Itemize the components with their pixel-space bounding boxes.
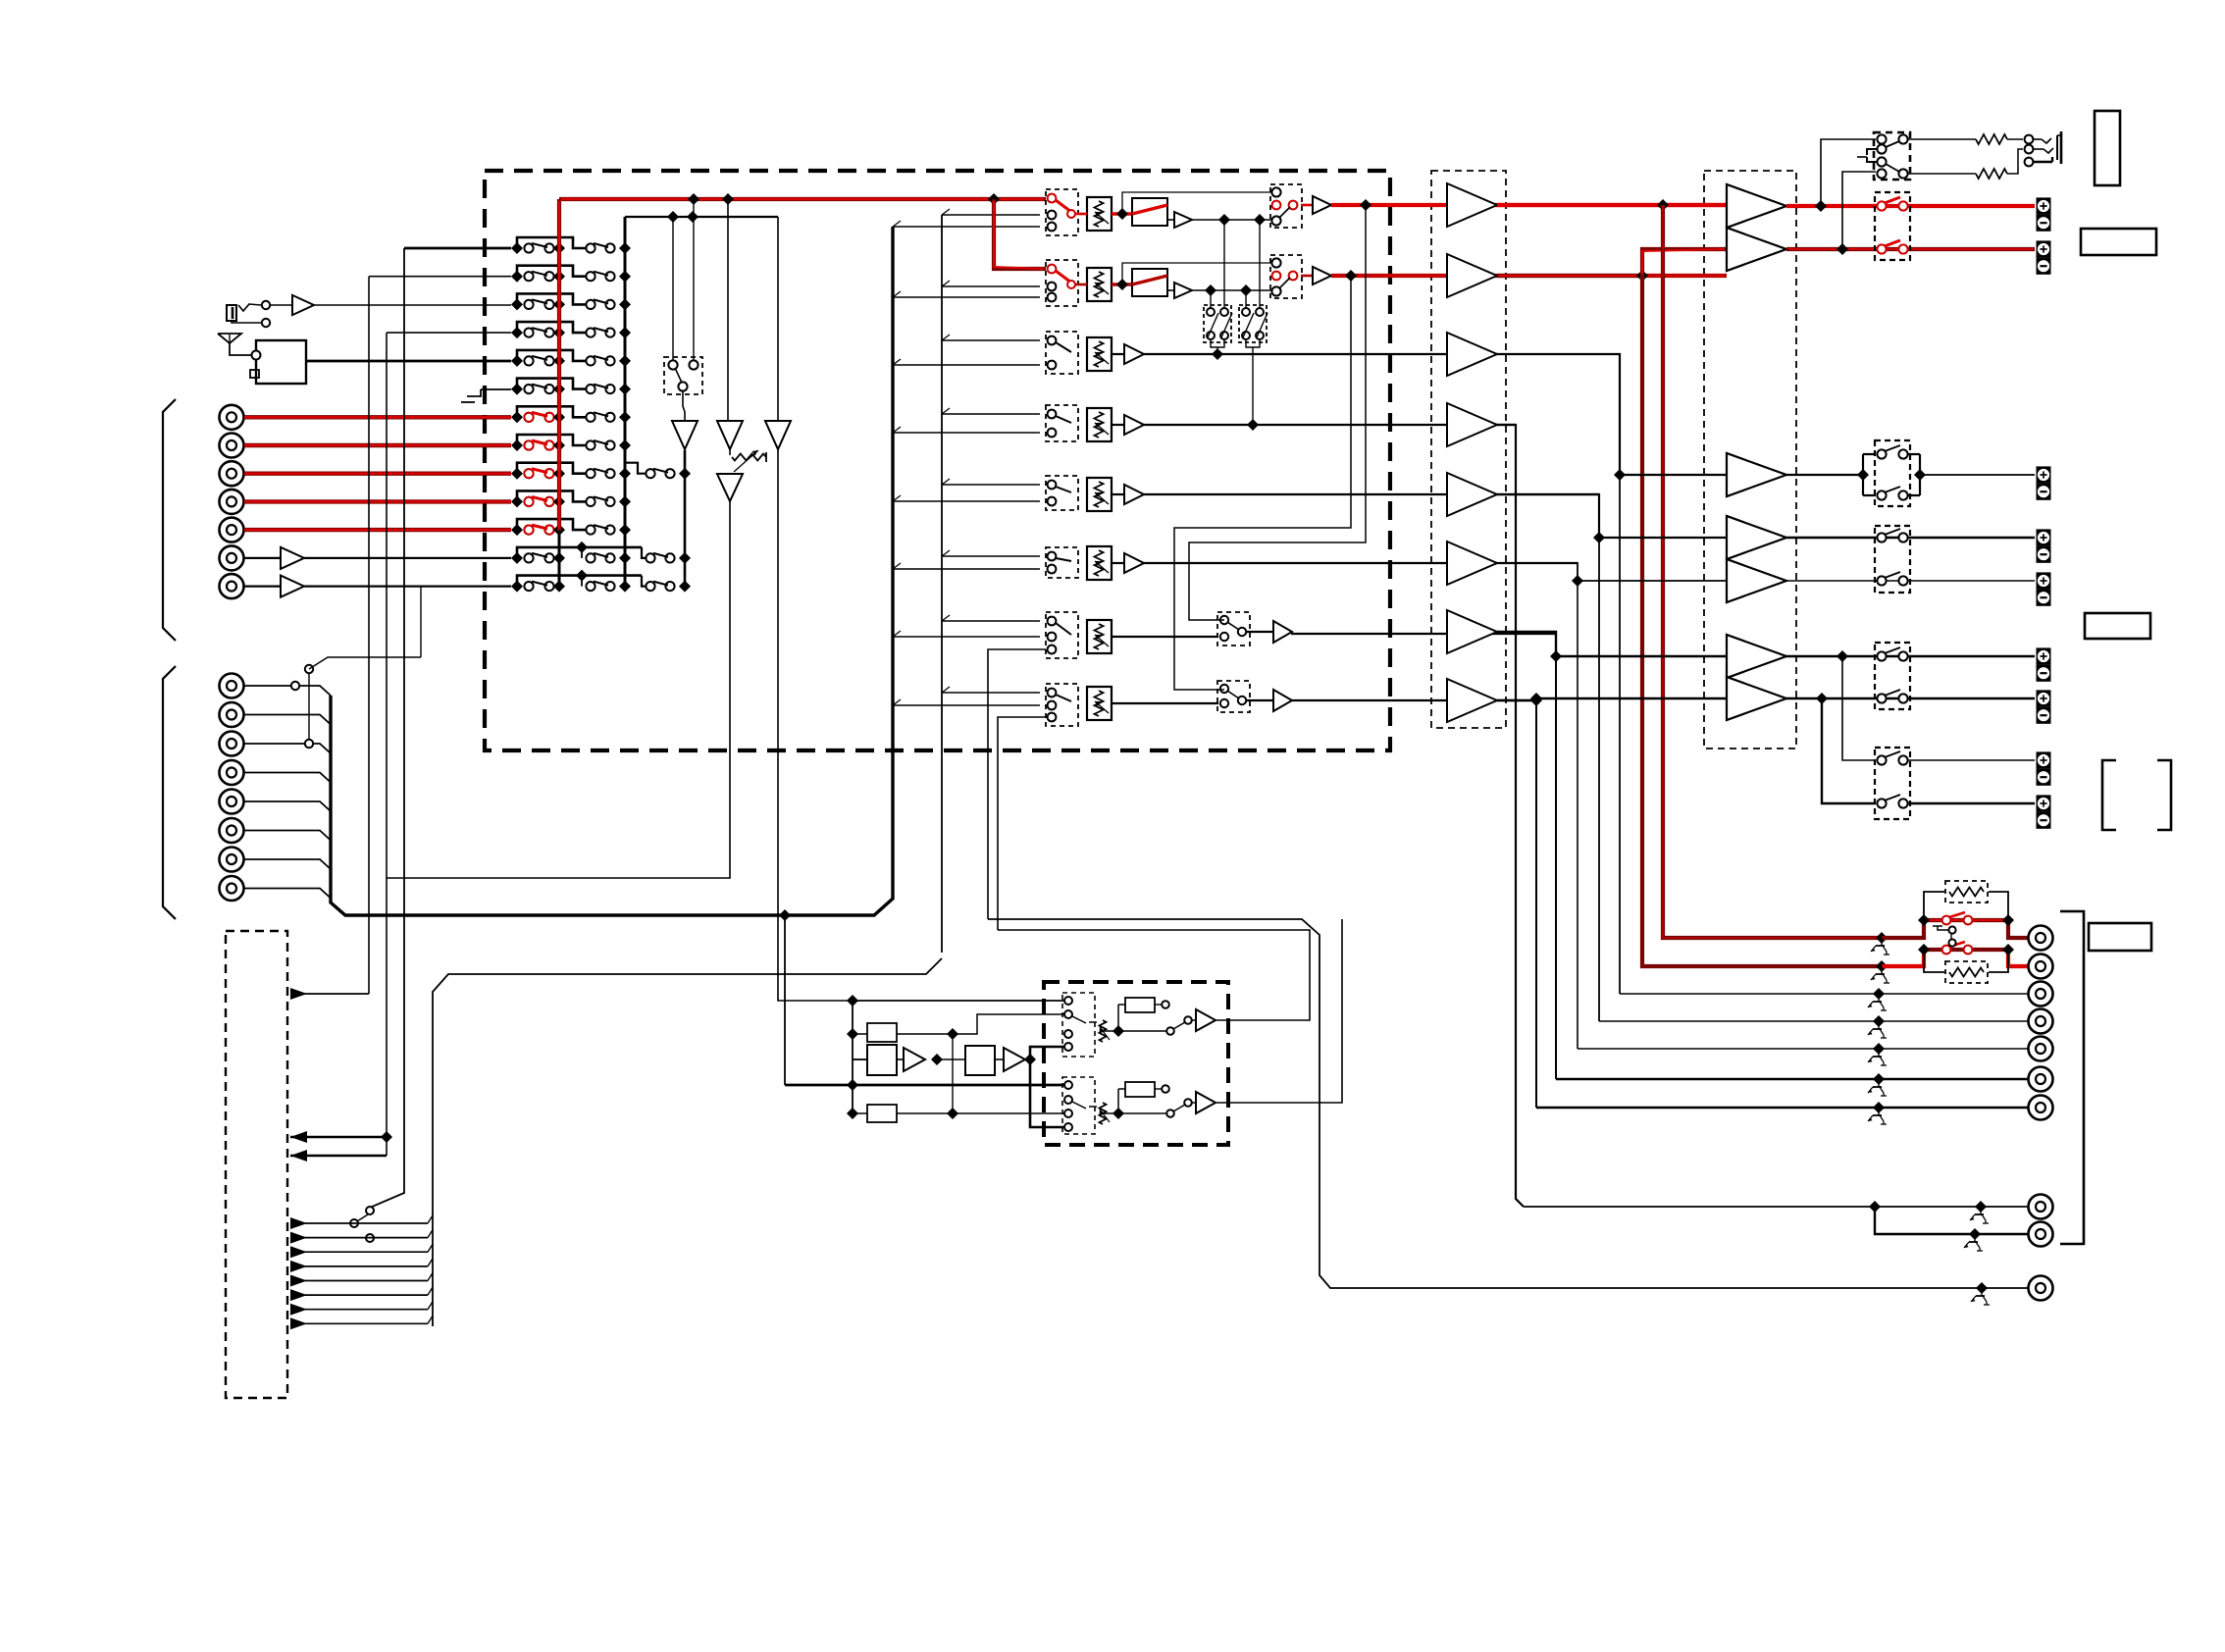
pre out group bracket [2060,911,2084,1244]
C zone line (long horizontal) [988,919,2028,1294]
rec tap buffer A-FLt [1167,212,1192,228]
red selected-signal drop to front-R volume [988,193,1046,269]
buffer A-DF1 [897,1048,943,1071]
mute transistor Q-CZ [1971,1288,1990,1305]
DSP output bus riser [433,958,942,1326]
wire MC5 to input bus [244,801,331,811]
line buffer A-SR [1112,553,1144,573]
DAC out line B [1216,919,1342,1103]
SW pre-out jack J-SW1 [2029,1195,2053,1219]
speaker config bracket [2102,760,2171,830]
SW pre-out line 2 [1875,1207,2028,1240]
selector switch S10b (record) row10 [586,495,631,507]
selector switch S3b (record) row3 [586,298,631,310]
input select switch SW-FL (dashed box) [1046,189,1078,235]
wire MC3 to input bus [244,744,331,753]
volume control VR-SBR [1087,687,1112,720]
label box FRONT [2081,229,2156,255]
pre-out jack J-SL [2029,1009,2053,1034]
input select switch SW-SW (dashed box) [1046,405,1078,441]
mute transistor Q-SW2 [1964,1234,1983,1251]
SBR pre-out drop [1535,698,1537,1108]
RCA multi-channel input jack MC8 [220,876,244,901]
selector switch S13a (listen) row13 [511,581,565,593]
SL speaker line [1786,537,2035,540]
bypass bracket row9 to aux record column [625,463,646,474]
wire C strip to driver [1144,348,1497,360]
input select switch SW-SBL (dashed box) [1046,612,1078,658]
headphone dropping resistor RL [1907,134,2023,144]
selector switch S13c (aux record) row13 [646,581,691,593]
clock block X2 [853,1105,1068,1122]
muting relay RY-FL [1132,198,1167,226]
label box PRE OUT [2089,923,2151,951]
DAC output switch B [1118,1099,1192,1117]
rec level pot [730,449,766,472]
line buffer A-SW [1112,415,1144,435]
FR speaker terminal pair [2037,240,2051,274]
DSP block (dashed box, bottom-left) [226,931,287,1398]
mic/phones input jack J-MIC [227,301,270,327]
wire SL strip to driver [1144,493,1599,495]
mute transistor Q-SL [1868,1021,1887,1038]
rec out L buffer A-REC3 (down) [717,474,743,501]
pre-out jack J-FR [2029,955,2053,979]
driver amp A-DFL [1447,183,1497,227]
RCA multi-channel input jack MC5 [220,790,244,814]
wire rec out R down to DAC monitor [778,449,1068,1007]
mute transistor Q-SBL [1868,1079,1887,1096]
wire A-REC1 out to aux record bus [684,449,686,474]
C speaker line with A/B bridge [1786,454,2035,495]
rec tap buffer A-FRt [1167,283,1192,298]
multi-channel input bus (vertical, thick) [331,227,893,915]
pre-out line SBR with mute [1536,1102,2028,1113]
red FR riser and feed to power amp [1642,249,1727,276]
wire FL to driver amp (red) [1331,203,1727,207]
red FR speaker line [1786,243,2035,255]
zone L line [1907,759,2035,761]
selector switch S11a (listen) row11 [511,524,565,536]
buffer A-DF2 [995,1048,1036,1071]
wire selector row1 (thick) down to DSP bypass [370,248,511,1208]
power amp A-PC [1727,453,1786,496]
volume control VR-SW [1087,408,1112,441]
pre-out relay actuator [1933,926,1956,947]
selector switch S5b (record) row5 [586,355,631,367]
front-L tap to SBL tone switch [1189,199,1371,620]
long bypass bracket row13 to aux record column [576,570,646,587]
SBR speaker line [1786,693,2035,704]
mute transistor Q-SR [1868,1049,1887,1065]
mute transistor Q-C [1868,994,1887,1010]
selector switch S11b (record) row11 [586,524,631,536]
headphone feed R [1842,172,1876,249]
zone L terminal pair [2037,751,2051,785]
RCA multi-channel input jack MC3 [220,732,244,756]
input select switch SW-SBR (dashed box) [1046,684,1078,726]
rec tap line FL [1192,214,1271,226]
SW pre-out jack J-SW2 [2029,1222,2053,1247]
input select switch SW-SL (dashed box) [1046,476,1078,510]
zone B feed L [1842,656,1876,760]
mute transistor Q-SW1 [1970,1207,1989,1223]
red signal wire jack IN4 to selector [244,499,511,503]
rec tap verticals FR [1211,290,1246,312]
selector switch S10a (listen) row10 [511,495,565,507]
headphone dropping resistor RR [1907,149,2023,179]
SW pre-out line 1 [1524,1201,2028,1213]
DSP channel arrow 3 [290,1244,433,1258]
RCA multi-channel input jack MC7 [220,848,244,872]
record bus feed line (horizontal) [625,211,778,223]
speaker relay switch SW-FRONT (dashed box) [1875,192,1910,260]
bypass bracket row2 to record column [517,266,586,277]
line buffer A-FL [1301,196,1331,214]
bypass bracket row5 to record column [517,350,586,361]
red selected-signal line to front-L volume [559,197,1046,201]
selector switch S5a (listen) row5 [511,355,565,367]
SBL pre-out drop [1555,656,1557,1079]
SL line to power amp [1497,494,1727,543]
wire SR strip to driver [1144,562,1578,564]
speaker switch SW-ZONE (dashed box) [1875,748,1910,819]
DAC input bus vertical [847,1001,858,1119]
DSP channel arrow 7 [290,1302,433,1316]
red FL line driver to power amp [1497,199,1727,211]
DAC deemphasis resistor A [1118,998,1169,1031]
DSP channel arrow 1 [290,1215,433,1229]
power amplifier block (dashed) [1704,171,1796,749]
RCA input jack IN1 (selected, red) [220,405,244,430]
red signal wire jack IN1 to selector [244,415,511,419]
selector switch S4b (record) row4 [586,327,631,338]
SBL speaker terminal pair [2037,647,2051,681]
selector switch S7a (listen) row7 [511,411,565,423]
selector switch S3a (listen) row3 [511,298,565,310]
selector switch S9c (aux record) row9 [646,468,691,480]
SR line to power amp [1497,563,1727,587]
FR pre-out bypass resistor (dashed box) [1945,961,1988,983]
rec tap line FR [1192,284,1271,296]
speaker switch SW-SURR (dashed box) [1875,526,1910,593]
power amp A-PSL [1727,516,1786,559]
selector switch S4a (listen) row4 [511,327,565,338]
RCA input jack IN4 (selected, red) [220,490,244,514]
DAC thick input line 2 [785,1084,1068,1087]
RCA input jack INB2 [220,574,244,598]
tape monitor switch on MC lines [291,657,421,748]
bypass bracket row11 to record column [517,519,586,530]
wire MC7 to input bus [244,859,331,869]
wire tape monitor to selector row13 [420,587,422,657]
headphone switch SW-HP (dashed box) [1857,132,1910,180]
rec out selector SW-ROFL (dashed box) [1270,184,1302,228]
volume control VR-C [1087,337,1112,371]
FL pre-out attenuator network (red) [1876,892,2028,944]
wire MC4 to input bus [244,773,331,783]
direct bypass wire FR [1122,263,1272,284]
selector switch S12c (aux record) row12 [646,552,691,564]
red FR pre-out drop [1642,276,1882,966]
DAC output buffer B [1192,1092,1216,1113]
RCA input jack INB1 [220,545,244,570]
DSP return arrow 1 [290,1131,392,1143]
RCA multi-channel input jack MC2 [220,702,244,727]
red signal wire jack IN5 to selector [244,528,511,532]
record source selector SW-REC (dashed box) [664,357,702,394]
junction on red line for record tap [688,193,734,205]
ext-in feed to SBR strip [998,717,1046,930]
wire selector row4 down to DSP returns [387,333,511,1156]
SBR speaker terminal pair [2037,690,2051,723]
selector switch S12b (record) row12 [586,552,631,564]
DAC deemphasis resistor B [1118,1082,1169,1113]
driver amp A-DSW [1447,403,1497,446]
pre-out line SBL with mute [1556,1073,2028,1085]
SR pre-out drop [1577,581,1578,1049]
rec out routing switch box 1 (dashed) [1204,305,1232,342]
zone pre-out jack J-CZ [2029,1276,2053,1301]
FL speaker terminal pair [2037,197,2051,231]
mute transistor Q-FR [1871,966,1889,983]
selector switch S13b (record) row13 [586,581,631,593]
wire mic to selector row3 [270,304,511,306]
SL speaker terminal pair [2037,529,2051,562]
mic buffer amp A-MIC [292,295,314,315]
SW line drop to sub pre-out [1497,425,1524,1207]
long bypass bracket row12 to aux record column [576,542,646,558]
brace: analog stereo input jack group [163,399,176,641]
wire MC8 to input bus [244,889,331,899]
selector switch S12a (listen) row12 [511,552,565,564]
tone defeat switch SW-TSBR (dashed box) [1112,681,1250,712]
speaker switch SW-SB (dashed box) [1875,643,1910,709]
SR speaker terminal pair [2037,572,2051,605]
wire record taps into SW-REC [673,199,694,360]
DAC / analog multi-channel input block (bold dashed border) [1044,982,1228,1145]
selector switch S7b (record) row7 [586,411,631,423]
input select switch SW-FR (dashed box) [1046,260,1078,306]
mute transistor Q-FL [1871,938,1889,955]
driver amp A-DC [1447,333,1497,376]
C line to power amp [1497,354,1727,481]
speaker A/B switch SW-C (dashed box) [1875,440,1910,506]
input selector / switching matrix block (bold dashed border) [485,171,1390,750]
bypass bracket row6 to record column [517,379,586,389]
pre-out line SR with mute [1578,1043,2028,1055]
C pre-out drop [1619,475,1621,994]
wire MC1 to input bus [244,686,331,696]
FR pre-out attenuator network (red) [1876,942,2028,972]
red FL speaker line [1786,200,2035,212]
DAC output switch A [1118,1016,1192,1035]
headphone feed L [1821,139,1876,206]
DSP return bus (vertical, feeds strip top inputs) [942,209,1040,953]
red FL pre-out drop [1663,205,1882,938]
wire tuner out to selector row5 (thick) [306,360,511,363]
DAC select switch box B (dashed) [1062,1077,1095,1134]
pre-out line SL with mute [1599,1015,2028,1027]
RCA multi-channel input jack MC6 [220,818,244,843]
pre-out jack J-FL [2029,926,2053,951]
wire SW strip to driver [1144,419,1516,431]
bypass bracket row3 to record column [517,293,586,304]
DSP IC block U-DF [853,1045,897,1075]
selector switch S6b (record) row6 [586,384,631,395]
wire FR to driver amp (red) [1331,274,1727,278]
source bus B (vertical, feeds strip bottom inputs) [893,221,1040,899]
selector switch S1a (listen) row1 [511,242,565,254]
bypass bracket row12 to record column [517,547,642,558]
bypass bracket row1 to record column [517,237,586,248]
line buffer A-FR [1301,267,1331,284]
selector switch S2a (listen) row2 [511,271,565,283]
power amp A-PSBL [1727,635,1786,678]
bypass bracket row13 to record column [517,576,642,587]
C speaker terminal pair [2037,466,2051,499]
line buffer A-SL [1112,485,1144,504]
SL pre-out drop [1598,538,1600,1021]
mute transistor Q-SBR [1868,1108,1887,1124]
line buffer A-SBL [1246,621,1292,643]
rec out L buffer A-REC2 (down) [717,199,743,449]
FM/AM antenna [218,334,252,355]
driver amp A-DSBR [1447,679,1497,722]
SBL line to power amp [1497,632,1727,662]
DSP return arrow 2 [290,1150,387,1162]
red signal wire jack IN2 to selector [244,443,511,447]
wire volume to muting relay FL [1075,208,1132,220]
bypass bracket row4 to record column [517,322,586,333]
DAC level trim A [1089,1020,1124,1042]
driver amp A-DSBL [1447,610,1497,653]
tuner block U-TUNER [250,340,306,384]
DSP channel arrow 6 [290,1287,433,1301]
ext-in feed to SBL strip [988,649,1046,919]
rec out R buffer A-REC4 (down) [765,217,791,449]
selector switch S9b (record) row9 [586,468,631,480]
zone R terminal pair [2037,795,2051,828]
selector switch S6a (listen) row6 [511,384,565,395]
power amp A-PSR [1727,559,1786,602]
DSP channel arrow 2 [290,1230,433,1244]
driver amp A-DFR [1447,254,1497,297]
label box SURROUND [2085,613,2150,639]
ground stub on selector row6 [461,389,511,402]
oscillator block X1 [853,1023,897,1042]
DAC out line A [998,930,1310,1020]
direct bypass wire FL [1122,192,1272,214]
selector switch S9a (listen) row9 [511,468,565,480]
wire MC2 to input bus [244,715,331,725]
bypass bracket row10 to record column [517,490,586,501]
input select switch SW-C (dashed box) [1046,332,1078,374]
bypass bracket row8 to record column [517,435,586,445]
DSP channel arrow 8 [290,1316,433,1329]
DAC output buffer A [1192,1009,1216,1031]
record bus (vertical) [624,217,627,587]
pre-out jack J-SR [2029,1037,2053,1061]
driver amp A-DSL [1447,473,1497,516]
selector switch S1b (record) row1 [586,242,631,254]
SBL speaker line [1786,650,2035,662]
volume control VR-FR [1087,268,1112,301]
red FR line driver to riser [1497,270,1648,282]
headphone jack J-HP [2025,131,2061,166]
aux record bus (vertical) [684,450,687,587]
DSP channel arrow 4 [290,1259,433,1272]
DSP channel arrow 5 [290,1273,433,1287]
input buffer amp A-INB2 [244,576,511,597]
tone defeat switch SW-TSBL (dashed box) [1112,612,1250,645]
zone B feed R [1822,698,1876,803]
volume control VR-FL [1087,197,1112,231]
DSP input arrow (from CD row) [290,988,369,1000]
zone R line [1907,802,2035,804]
rec out selector SW-ROFR (dashed box) [1270,255,1302,298]
RCA multi-channel input jack MC1 [220,674,244,698]
red signal wire jack IN3 to selector [244,472,511,476]
wire routing box2 to SW strip line [1246,339,1260,425]
DAC level trim B [1089,1103,1124,1124]
power amp A-PFR [1727,228,1786,271]
wire MC6 to input bus [244,831,331,841]
wire X1 out [897,1014,1068,1040]
DAC IC block U-DAC [937,1046,995,1075]
driver amplifier block (dashed) [1431,171,1506,728]
bypass bracket row7 to record column [517,406,586,417]
line buffer A-C [1112,344,1144,364]
rec out routing switch box 2 (dashed) [1239,305,1268,342]
bypass bracket row9 to record column [517,463,586,474]
pre-out jack J-C [2029,982,2053,1007]
wire SBL strip to driver [1291,633,1556,635]
selector switch S8a (listen) row8 [511,439,565,451]
brace: multi channel input jack group [163,666,176,919]
FL pre-out bypass resistor (dashed box) [1945,881,1988,903]
RCA input jack IN5 (selected, red) [220,518,244,542]
power amp A-PFL [1727,184,1786,228]
pre-out jack J-SBR [2029,1096,2053,1120]
wire volume to muting relay FR [1075,279,1132,290]
listen bus (vertical) with selected red signal [558,199,561,587]
muting relay RY-FR [1132,269,1167,296]
line buffer A-SBR [1246,690,1292,711]
front-R tap to SBR tone switch [1174,270,1357,690]
wire SBR strip to driver [1292,695,1542,706]
volume control VR-SBL [1087,620,1112,653]
wire DAC out to switch inputs [1030,1047,1068,1127]
DAC input line 1 [853,1000,1068,1002]
input buffer amp A-INB1 [244,547,511,569]
volume control VR-SR [1087,546,1112,580]
rec buffer amp A-REC1 (inverting, down) [672,391,698,449]
wire routing box1 to C strip line [1211,339,1224,354]
rec tap verticals FL [1224,220,1260,312]
RCA multi-channel input jack MC4 [220,760,244,785]
volume control VR-SL [1087,478,1112,511]
power amp A-PSBR [1727,677,1786,720]
pre-out line C with mute [1620,988,2028,1000]
pre-out jack J-SBL [2029,1067,2053,1092]
RCA input jack IN2 (selected, red) [220,434,244,458]
DSP bypass selector [350,1207,374,1242]
input select switch SW-SR (dashed box) [1046,547,1078,578]
RCA input jack IN3 (selected, red) [220,461,244,486]
SR speaker line [1786,580,2035,582]
wire bus to DAC input 2 [779,909,791,1085]
